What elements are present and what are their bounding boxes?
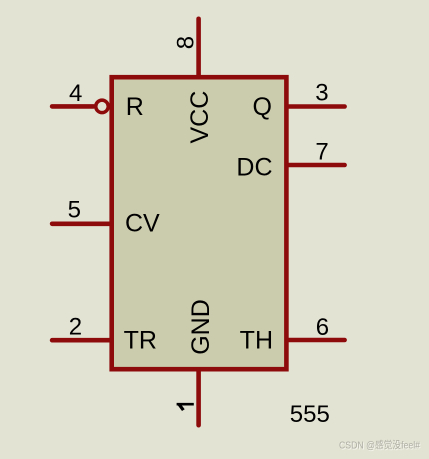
pin number 1 xyxy=(177,403,194,411)
svg-text:VCC: VCC xyxy=(186,91,214,144)
IC U1 555 timer body xyxy=(112,77,287,369)
wire pin 1 GND bottom xyxy=(196,371,201,425)
wire pin 6 TH right xyxy=(288,338,345,343)
svg-text:7: 7 xyxy=(315,138,328,165)
svg-text:5: 5 xyxy=(68,196,81,223)
svg-text:CSDN @感觉没feel#: CSDN @感觉没feel# xyxy=(339,439,420,452)
wire pin 7 DC right xyxy=(288,163,345,168)
svg-text:3: 3 xyxy=(315,80,328,107)
wire pin 8 VCC top xyxy=(196,19,201,76)
svg-text:Q: Q xyxy=(253,93,272,121)
svg-text:GND: GND xyxy=(187,299,215,355)
svg-text:4: 4 xyxy=(69,80,82,107)
svg-text:CV: CV xyxy=(125,210,160,238)
svg-text:8: 8 xyxy=(172,36,199,49)
wire pin 5 CV left xyxy=(52,222,110,227)
svg-text:2: 2 xyxy=(69,314,82,341)
svg-text:DC: DC xyxy=(236,154,272,182)
wire pin 3 Q right xyxy=(288,104,345,109)
svg-text:6: 6 xyxy=(316,314,329,341)
inversion bubble pin 4 xyxy=(96,100,109,113)
svg-text:555: 555 xyxy=(290,401,330,428)
svg-text:TR: TR xyxy=(124,327,157,355)
wire pin 4 R left xyxy=(52,104,93,109)
svg-text:R: R xyxy=(126,93,144,121)
wire pin 2 TR left xyxy=(52,338,110,343)
svg-text:TH: TH xyxy=(240,327,273,355)
